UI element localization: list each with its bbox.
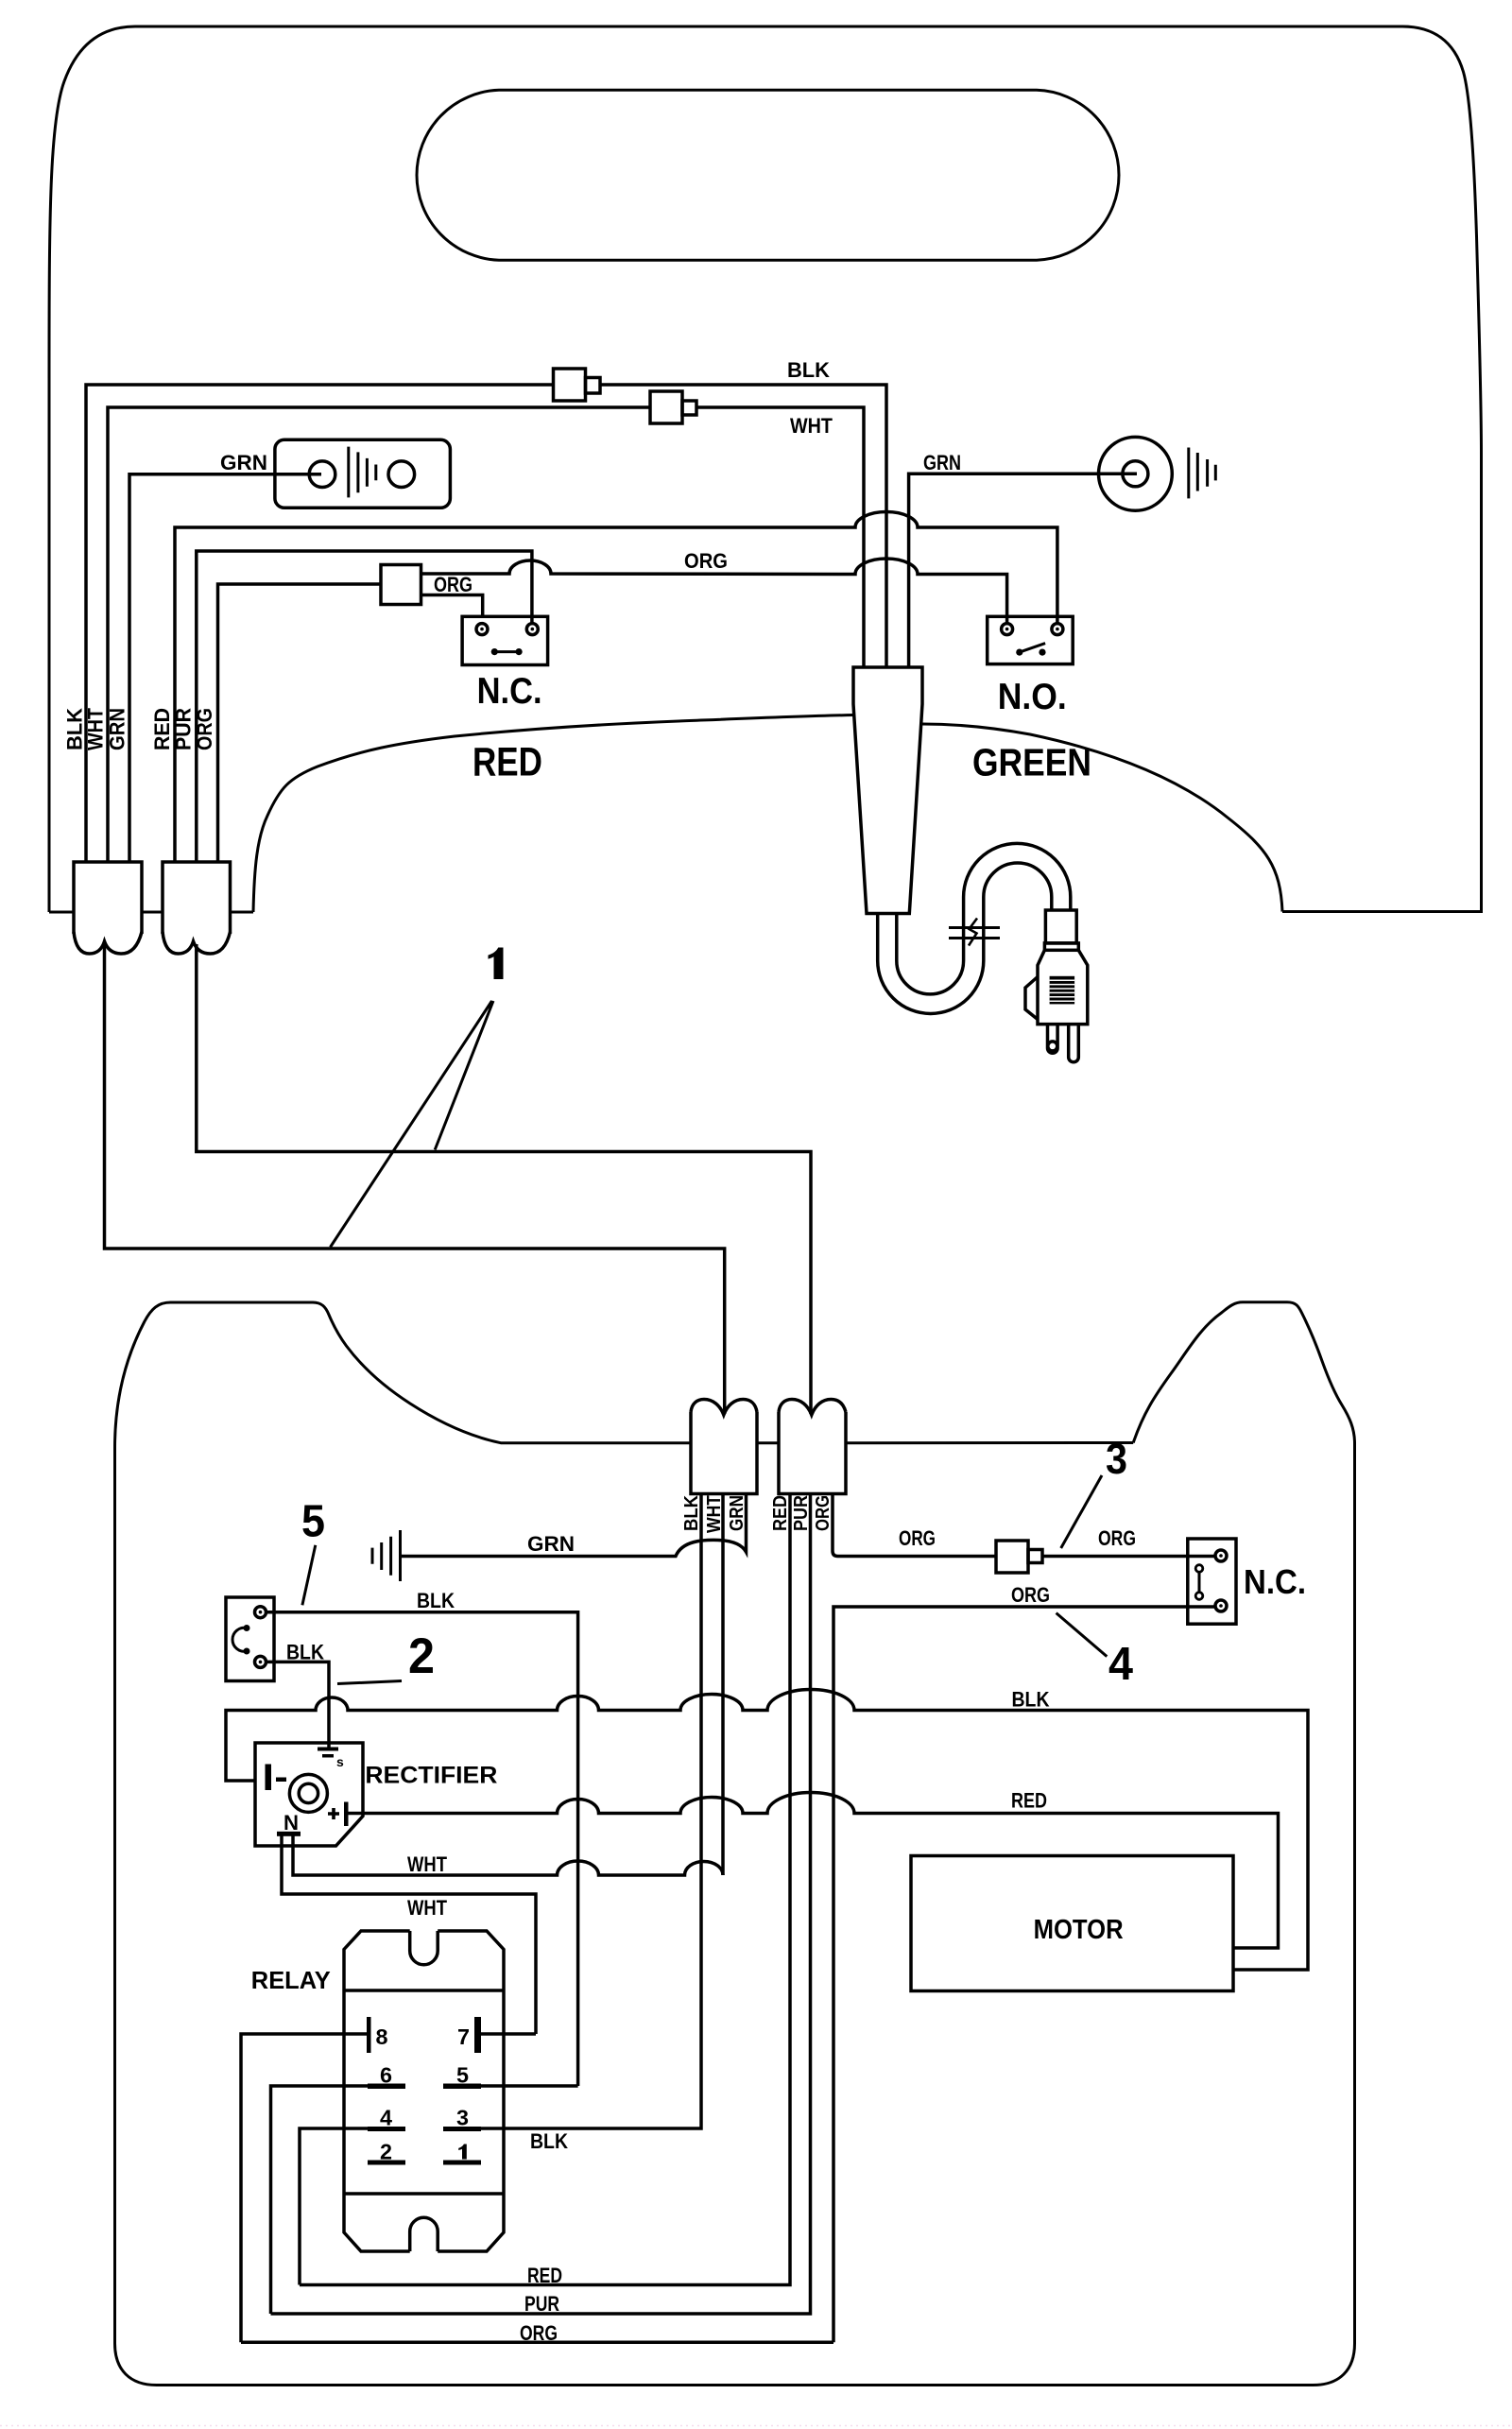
svg-text:N: N [283,1811,299,1835]
label RED (bundle B rotated) [770,1495,791,1531]
switch N.O. (pendant GREEN button) [988,616,1074,663]
callout 2 (with leader) [337,1628,435,1684]
svg-text:BLK: BLK [787,358,830,382]
label RED (button) [472,740,542,785]
switch N.C. (pendant RED button) [462,616,547,664]
svg-text:6: 6 [380,2063,392,2088]
label GRN (pendant drop rotated) [105,708,129,750]
wire ORG lower (bundle B to fuse) [833,1494,996,1557]
svg-text:RELAY: RELAY [251,1966,331,1994]
svg-text:N.O.: N.O. [998,677,1067,717]
svg-text:RED: RED [770,1495,791,1531]
wire 1b (connector 2 cable down to lower bundle B) [197,944,811,1414]
svg-text:PUR: PUR [791,1495,812,1531]
svg-text:WHT: WHT [407,1852,447,1876]
wire pin 4 to RED run [300,2128,368,2285]
wire PUR bottom run [271,1494,811,2315]
label ORG (bundle B rotated) [813,1495,833,1531]
motor [911,1856,1233,1991]
svg-text:GRN: GRN [923,451,961,474]
svg-text:3: 3 [456,2106,469,2130]
svg-text:s: s [336,1754,344,1769]
svg-text:GRN: GRN [727,1495,747,1531]
label GRN (ground wire) [527,1532,575,1556]
svg-text:N.C.: N.C. [1244,1562,1306,1601]
wire pin 8 to ORG run [241,2034,367,2342]
svg-text:ORG: ORG [813,1495,833,1531]
label BLK (pendant drop rotated) [63,708,87,750]
power cord (S-loop) [878,843,1071,1013]
svg-text:4: 4 [380,2106,392,2130]
label ORG (right of lower fuse) [1098,1526,1136,1550]
fuse on WHT wire [650,391,696,423]
svg-text:3: 3 [1106,1435,1127,1483]
svg-text:GRN: GRN [105,708,129,750]
wire WHT pendant (left drop, top run, to strain relief) [108,407,864,862]
callout 1 (cable callout with two leaders) [331,948,504,1248]
svg-text:RED: RED [1011,1789,1047,1813]
rectifier terminal plus [328,1802,349,1827]
wire RED (rectifier plus, long run to motor, hops) [348,1793,1279,1948]
label PUR (pendant drop rotated) [171,708,195,750]
rectifier terminal minus [266,1765,287,1791]
svg-text:WHT: WHT [407,1896,447,1920]
svg-text:GREEN: GREEN [972,741,1091,784]
wire BLK (thermal switch bottom to rectifier S) [266,1662,329,1749]
label PUR (bundle B rotated) [791,1495,812,1531]
label WHT (pendant drop rotated) [84,707,108,750]
svg-text:BLK: BLK [530,2129,568,2153]
svg-text:ORG: ORG [434,573,472,596]
wire pin 7 stub [481,2032,536,2036]
label ORG (wire 4) [1011,1583,1050,1607]
label PUR (bottom run) [524,2292,559,2316]
wire PUR pendant (drop, run to N.C. right terminal) [197,551,532,862]
wire WHT 2 (rectifier N left leg to relay pin 7) [282,1835,536,2034]
label RED (pendant drop rotated) [150,708,174,750]
svg-text:ORG: ORG [1011,1583,1050,1607]
wire RED pendant (drop, run to N.O. right terminal) [175,512,1057,862]
bundle A (cable entry, BLK/WHT/GRN) [691,1400,757,1494]
relay pin 2 [368,2140,405,2165]
svg-text:4: 4 [1108,1639,1133,1690]
svg-text:N.C.: N.C. [477,671,542,712]
svg-text:PUR: PUR [524,2292,559,2316]
callout 4 (with leader) [1057,1613,1133,1690]
wire GRN pendant left (to buzzer) [129,474,321,862]
label GRN (left buzzer wire) [220,451,267,474]
svg-text:RED: RED [472,740,542,785]
controller enclosure outline (bottom housing) [115,1302,1355,2386]
label WHT (bundle A rotated) [704,1495,725,1533]
bundle B (cable entry, RED/PUR/ORG) [779,1400,846,1494]
label N.O. (pendant) [998,677,1067,717]
label BLK (top run) [787,358,830,382]
label BLK (pin 3 wire) [530,2129,568,2153]
power plug [1025,910,1088,1062]
label ORG (bottom run) [520,2321,558,2345]
relay pin 1 [443,2145,481,2165]
svg-text:ORG: ORG [193,708,216,750]
svg-text:ORG: ORG [1098,1526,1136,1550]
label ORG (near fuse) [434,573,472,596]
svg-text:MOTOR: MOTOR [1034,1915,1124,1945]
label RED (long motor wire) [1011,1789,1047,1813]
label ORG (pendant drop rotated) [193,708,216,750]
buzzer round (pendant right) [1099,437,1216,510]
svg-text:WHT: WHT [84,707,108,750]
wire minus-BLK (rectifier minus, long run to motor, hops) [226,1690,1308,1971]
wire 4 ORG (limit switch bottom to relay pin 8 path) [833,1607,1215,2342]
label GRN (right) [923,451,961,474]
wire GRN pendant right (strain relief to round buzzer) [909,474,1137,667]
relay pin 8 [367,2017,388,2053]
wire ORG (fuse to limit switch top) [1042,1555,1215,1559]
label RED (bottom run) [527,2264,562,2287]
label BLK (thermal top wire) [417,1589,455,1612]
cord break symbol [949,919,1000,946]
relay pin 5 [443,2063,481,2090]
wire ORG pendant (drop into fuse) [218,584,382,862]
wire WHT 1 (rectifier N right leg to bundle WHT, hops) [293,1835,723,1875]
rectifier terminal S [318,1748,344,1770]
connector 2 (pendant cable plug, RED/PUR/ORG) [163,862,231,954]
svg-text:ORG: ORG [520,2321,558,2345]
wire ORG continuation (fuse to N.O. left terminal, with hops) [421,559,1007,624]
fuse on ORG wire (pendant) [381,565,421,605]
callout 5 (with leader) [301,1497,325,1606]
svg-text:BLK: BLK [681,1494,702,1531]
strain relief funnel (power cord boot) [853,667,922,914]
wire pin 5 stub [481,2084,578,2088]
svg-text:5: 5 [301,1497,325,1547]
wire GRN lower (bundle A to chassis ground) [401,1494,747,1557]
svg-text:ORG: ORG [684,549,728,573]
svg-text:ORG: ORG [899,1526,936,1550]
buzzer (pendant, rounded box speaker) [275,439,451,508]
faint scan artifact line [0,2425,1512,2427]
relay pin 3 [443,2106,481,2132]
relay pin 6 [368,2063,405,2090]
switch N.C. limit (lower) [1188,1539,1236,1624]
svg-text:BLK: BLK [1012,1688,1050,1712]
connector 1 (pendant cable plug, BLK/WHT/GRN) [74,862,142,954]
svg-text:5: 5 [456,2063,469,2088]
svg-text:2: 2 [408,1628,435,1684]
svg-text:2: 2 [380,2140,392,2164]
label BLK (thermal bottom wire) [286,1641,324,1664]
label RELAY [251,1966,331,1994]
svg-text:8: 8 [376,2024,388,2049]
wire ORG bottom run [241,2340,833,2344]
wire 1a (connector 1 cable down to lower bundle A) [105,944,725,1414]
svg-text:BLK: BLK [286,1641,324,1664]
relay pin 4 [368,2106,405,2132]
label WHT (top run) [790,414,833,438]
svg-text:RECTIFIER: RECTIFIER [365,1763,497,1789]
relay body [344,1931,504,2251]
relay pin 7 [457,2017,481,2053]
label BLK (long motor wire) [1012,1688,1050,1712]
label WHT 1 [407,1852,447,1876]
svg-text:RED: RED [527,2264,562,2287]
svg-text:WHT: WHT [790,414,833,438]
label WHT 2 [407,1896,447,1920]
callout 3 (with leader) [1061,1435,1127,1548]
wire BLK pendant (left drop, top run, to strain relief) [86,385,886,862]
svg-text:7: 7 [457,2024,470,2049]
label ORG (left of lower fuse) [899,1526,936,1550]
fuse on ORG wire (lower) [996,1541,1042,1573]
label N.C. (pendant) [477,671,542,712]
fuse on BLK wire [554,369,601,401]
label BLK (bundle A rotated) [681,1494,702,1531]
wire BLK (thermal switch top to relay pin 5) [266,1612,578,2086]
thermal switch (callout 5 component) [226,1597,274,1681]
svg-text:GRN: GRN [220,451,267,474]
label GREEN (button) [972,741,1091,784]
label ORG (right run) [684,549,728,573]
label RECTIFIER [365,1763,497,1789]
chassis ground symbol [372,1530,401,1581]
label N.C. (lower) [1244,1562,1306,1601]
wire RED bottom run [300,1494,790,2285]
wire WHT bundle drop (bundle A WHT down) [721,1494,725,1876]
label GRN (bundle A rotated) [727,1495,747,1531]
wire pin 6 to PUR run [271,2086,369,2314]
svg-text:PUR: PUR [171,708,195,750]
handle cutout [417,90,1119,260]
pendant enclosure outline (top housing) [49,26,1482,912]
wire BLK bundle drop (bundle A BLK down to relay pin 3) [481,1494,701,2129]
rectifier [255,1743,363,1846]
rectifier terminal N [277,1811,301,1836]
svg-text:BLK: BLK [417,1589,455,1612]
svg-text:GRN: GRN [527,1532,575,1556]
wire ORG stub (fuse to N.C. left terminal) [421,595,483,618]
